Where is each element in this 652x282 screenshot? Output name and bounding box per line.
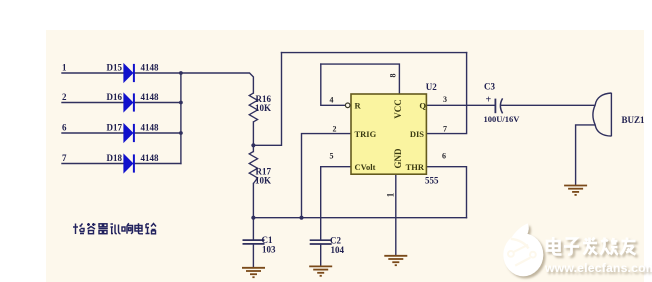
wire D16 cathode to bus: [135, 102, 181, 104]
svg-text:+: +: [486, 95, 492, 106]
wire C1 top lead: [252, 218, 254, 240]
svg-text:100U/16V: 100U/16V: [484, 114, 521, 124]
wire R16 bottom lead: [252, 122, 254, 145]
svg-text:2: 2: [333, 125, 337, 134]
wire R pin to inner loop: [321, 64, 345, 105]
ground under C1: [242, 268, 265, 277]
svg-text:VCC: VCC: [393, 99, 403, 119]
wire Q output to C3: [426, 104, 495, 106]
wire C3 to buzzer: [502, 104, 595, 106]
resistor R16: [249, 93, 257, 122]
wire net7 input: [62, 163, 124, 165]
capacitor C3 polarized: [495, 98, 502, 113]
svg-text:C3: C3: [484, 82, 495, 92]
svg-text:7: 7: [62, 153, 67, 163]
watermark text 电子发烧友 (drawn strokes): [547, 237, 636, 255]
char 电: [547, 237, 562, 255]
wire inner loop top to pin8: [321, 64, 400, 94]
pin 4 inversion bubble: [345, 103, 350, 108]
wire R17 bottom lead: [252, 184, 254, 218]
svg-text:4148: 4148: [141, 153, 160, 163]
svg-text:5: 5: [330, 152, 334, 161]
svg-text:555: 555: [425, 176, 439, 186]
svg-text:4148: 4148: [141, 123, 160, 133]
svg-text:6: 6: [62, 123, 67, 133]
char 电: [135, 223, 143, 234]
svg-text:D16: D16: [107, 92, 123, 102]
wire pin1 GND lead: [395, 174, 397, 255]
diode D15: [124, 64, 135, 83]
svg-text:DIS: DIS: [410, 129, 424, 139]
wire net1 input: [62, 72, 124, 74]
char 子: [564, 239, 579, 255]
junction R17/C1 node: [251, 216, 255, 220]
wire TRIG to riser: [302, 134, 352, 218]
svg-text:4148: 4148: [141, 63, 160, 73]
char 友: [621, 238, 636, 255]
svg-text:10K: 10K: [255, 103, 271, 113]
svg-text:4: 4: [330, 96, 334, 105]
svg-text:CVolt: CVolt: [355, 162, 376, 172]
svg-text:THR: THR: [406, 162, 425, 172]
svg-text:1: 1: [386, 192, 396, 197]
ground under C2: [309, 266, 332, 275]
svg-text:Q: Q: [419, 101, 426, 111]
wire net6 input: [62, 132, 124, 134]
svg-text:U2: U2: [426, 82, 437, 92]
wire top rail: [282, 52, 467, 54]
wire rail down to DIS: [426, 53, 466, 134]
wire diode bus vertical: [180, 73, 182, 164]
svg-text:2: 2: [62, 92, 67, 102]
svg-text:6: 6: [442, 152, 446, 161]
svg-text:GND: GND: [393, 148, 403, 169]
svg-text:D18: D18: [107, 153, 123, 163]
svg-text:TRIG: TRIG: [355, 129, 377, 139]
char 讯: [111, 224, 121, 234]
diode D18: [124, 154, 135, 173]
svg-text:7: 7: [443, 125, 447, 134]
ground under buzzer: [564, 186, 587, 195]
resistor R17: [249, 152, 257, 184]
wire D18 cathode to bus: [135, 163, 181, 165]
wire D17 cathode to bus: [135, 132, 181, 134]
capacitor C2: [310, 240, 332, 244]
char 器: [99, 224, 108, 234]
junction bus row1: [179, 71, 183, 75]
op-amp U2 555 timer body: [351, 94, 426, 174]
svg-text:D17: D17: [107, 123, 123, 133]
diode D16: [124, 93, 135, 112]
junction R16/R17 node: [251, 143, 255, 147]
wire bus to R16 top: [181, 73, 254, 93]
svg-text:8: 8: [389, 74, 398, 78]
char 抢: [73, 224, 85, 235]
wire net2 input: [62, 102, 124, 104]
char 答: [87, 223, 96, 234]
wire C1 bottom lead: [252, 244, 254, 267]
char 发: [583, 238, 597, 255]
svg-text:10K: 10K: [255, 176, 271, 186]
wire CVolt to C2: [321, 167, 351, 240]
title 抢答器讯响电路 (drawn strokes): [73, 223, 156, 234]
svg-text:R: R: [355, 101, 362, 111]
char 路: [146, 224, 157, 234]
char 烧: [601, 238, 619, 255]
capacitor C1: [243, 240, 265, 244]
svg-text:1: 1: [62, 63, 67, 73]
svg-text:BUZ1: BUZ1: [622, 115, 646, 125]
svg-text:104: 104: [331, 245, 345, 255]
junction bus row3: [179, 131, 183, 135]
svg-text:3: 3: [443, 95, 447, 104]
wire R17 top lead: [252, 145, 254, 151]
wire C2 bottom lead: [320, 244, 322, 266]
watermark elecfans: [503, 223, 652, 276]
junction TRIG riser node: [299, 216, 303, 220]
svg-text:103: 103: [262, 245, 276, 255]
wire bottom horizontal net: [253, 217, 466, 219]
char 响: [122, 223, 133, 234]
svg-text:www.elecfans.com: www.elecfans.com: [544, 261, 652, 275]
wire R16/R17 junction to top rail riser: [253, 53, 281, 146]
svg-text:D15: D15: [107, 63, 123, 73]
watermark logo circle: [503, 223, 543, 276]
buzzer BUZ1: [593, 93, 612, 137]
diode D17: [124, 124, 135, 143]
svg-text:4148: 4148: [141, 92, 160, 102]
wire D15 cathode to bus: [135, 72, 181, 74]
wire buzzer return: [576, 125, 595, 185]
junction bus row2: [179, 101, 183, 105]
svg-text:C1: C1: [262, 235, 273, 245]
svg-text:C2: C2: [330, 236, 341, 246]
ground at pin1: [384, 256, 407, 265]
wire THR drop: [426, 167, 466, 218]
